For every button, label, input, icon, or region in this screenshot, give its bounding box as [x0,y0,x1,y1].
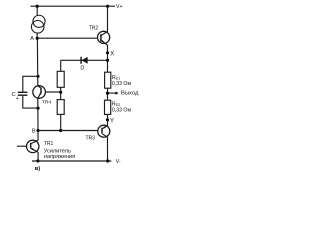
svg-text:TR1: TR1 [44,141,54,147]
svg-text:Y: Y [110,118,114,124]
svg-text:0,33 Ом: 0,33 Ом [112,81,132,87]
svg-text:V+: V+ [116,4,123,10]
svg-text:TR4: TR4 [42,99,51,105]
svg-text:TR3: TR3 [86,135,96,141]
svg-text:напряжения: напряжения [44,154,75,160]
svg-text:TR2: TR2 [89,25,99,31]
svg-text:B: B [32,129,36,135]
svg-text:D: D [80,65,84,71]
svg-text:X: X [110,51,114,57]
svg-text:0,33 Ом: 0,33 Ом [112,108,132,114]
svg-text:в): в) [35,166,41,172]
svg-text:A: A [30,36,34,42]
svg-text:+: + [16,96,19,102]
svg-text:V-: V- [116,159,121,165]
svg-text:Выход: Выход [121,90,139,96]
